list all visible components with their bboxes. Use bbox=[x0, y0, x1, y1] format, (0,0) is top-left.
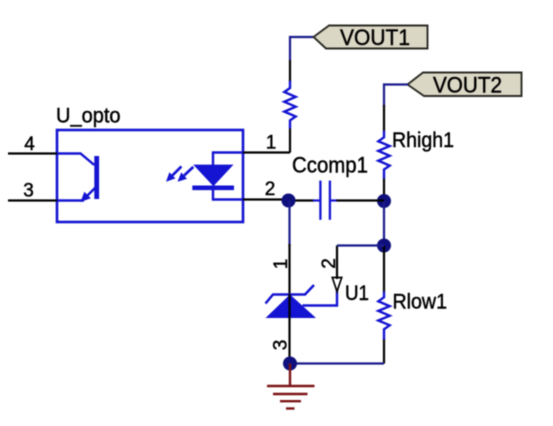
U1 main line through triangle bbox=[288, 294, 290, 364]
shunt regulator U1 triangle bbox=[266, 295, 317, 319]
junction node C (opto pin2 / Ccomp1 / U1) bbox=[282, 194, 296, 208]
svg-text:1: 1 bbox=[266, 133, 277, 154]
U1 reference connection bbox=[303, 290, 338, 306]
net label VOUT2 bbox=[408, 73, 522, 98]
ground bbox=[267, 364, 315, 409]
pin 2 bbox=[243, 179, 288, 200]
capacitor Ccomp1 bbox=[293, 181, 384, 220]
svg-text:2: 2 bbox=[319, 258, 340, 269]
transistor Q (opto output) bbox=[57, 154, 97, 201]
svg-text:1: 1 bbox=[271, 259, 292, 270]
pin 3 bbox=[8, 181, 57, 202]
resistor Rlow1 pins bbox=[383, 246, 385, 293]
svg-text:3: 3 bbox=[271, 340, 292, 351]
wire node C to U1 bbox=[288, 201, 290, 247]
svg-text:Ccomp1: Ccomp1 bbox=[292, 153, 368, 178]
resistor Rhigh1 body bbox=[378, 131, 389, 179]
wire VOUT2 to Rhigh1 bbox=[384, 85, 408, 108]
svg-text:VOUT2: VOUT2 bbox=[433, 73, 502, 98]
svg-text:4: 4 bbox=[24, 134, 35, 155]
opto-coupler U_opto body bbox=[57, 130, 243, 222]
junction node A (Ccomp1 / Rhigh1) bbox=[377, 194, 391, 208]
svg-text:3: 3 bbox=[23, 181, 34, 202]
net label VOUT1 bbox=[314, 25, 428, 50]
resistor R (VOUT1 branch) body bbox=[284, 81, 295, 129]
wire VOUT1 to resistor bbox=[290, 37, 314, 60]
U1 pin 1 line bbox=[288, 244, 290, 294]
svg-text:Rhigh1: Rhigh1 bbox=[392, 129, 454, 152]
U1 reference arrowhead (pin 2) bbox=[332, 278, 341, 292]
resistor Rlow1 body bbox=[378, 291, 389, 339]
photodiode D (opto input) bbox=[192, 153, 243, 200]
shunt regulator U1 (TL431) cathode bar bbox=[266, 285, 315, 304]
svg-text:U1: U1 bbox=[345, 282, 369, 305]
U1 pin 2 wire bbox=[336, 246, 338, 280]
svg-text:2: 2 bbox=[265, 179, 276, 200]
junction node D (U1 anode / ground) bbox=[283, 357, 297, 371]
junction node B (U1 ref / Rlow1) bbox=[377, 239, 391, 253]
wire Rlow1 to U1 anode node bbox=[290, 362, 384, 364]
resistor Rhigh1 pins bbox=[383, 105, 385, 132]
pin 1 bbox=[243, 133, 290, 154]
svg-text:Rlow1: Rlow1 bbox=[393, 291, 448, 314]
pin 4 bbox=[8, 134, 57, 155]
svg-text:U_opto: U_opto bbox=[56, 105, 121, 128]
resistor R (VOUT1 branch) pins bbox=[289, 60, 291, 82]
svg-text:VOUT1: VOUT1 bbox=[340, 25, 410, 50]
wire node A to node B bbox=[383, 201, 385, 246]
